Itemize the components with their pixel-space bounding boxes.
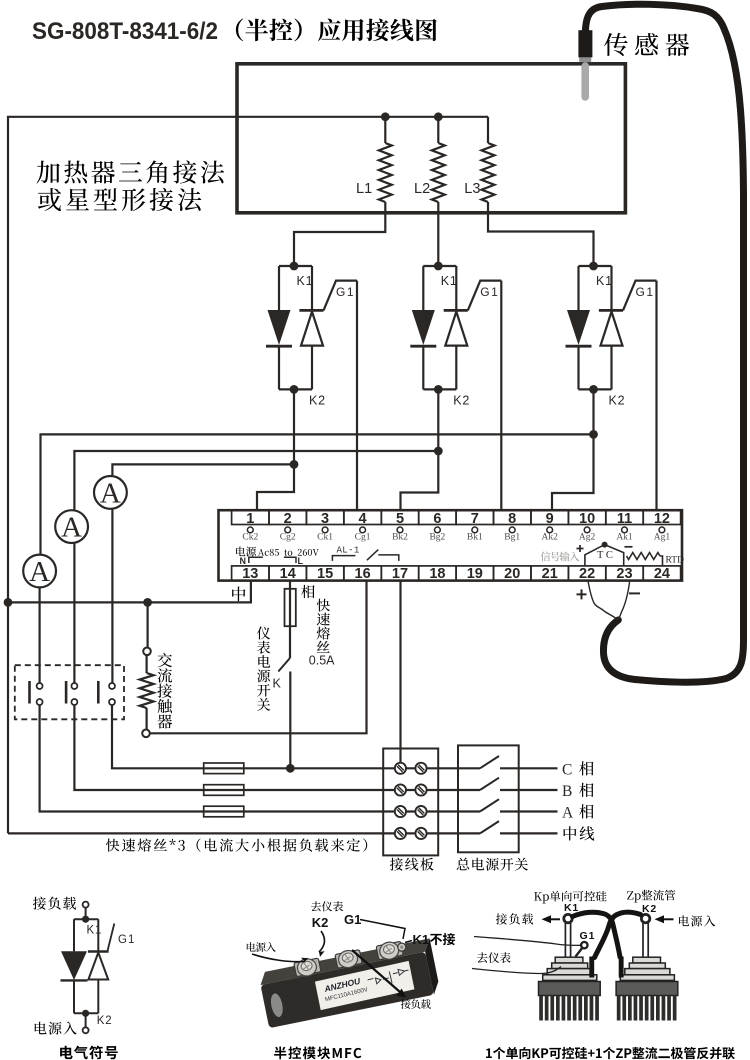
arrow middle terminal to load [352,950,400,992]
leader G1 to gate screw [360,920,405,940]
wire: sensor + lead to terminal 22 [588,581,618,620]
label: B phase [562,783,594,800]
svg-text:2: 2 [284,511,292,527]
arrow to load [542,915,561,923]
wire: bus line A (module3 K2 to ammeter A1) [41,434,594,554]
svg-text:13: 13 [242,566,258,582]
node: L1 top junction [381,112,390,121]
caption: fast fuses x3 [106,838,367,851]
figure: half-controlled module MFC (photo) [257,934,441,1028]
terminal signal labels Ck2..Ag1 [242,533,670,543]
label: neutral line [564,826,595,840]
svg-text:Bk2: Bk2 [392,533,408,543]
ammeter A1 [23,555,56,683]
label: sensor [604,33,689,56]
label: phase (xiang) [301,585,314,598]
label: power in [247,942,276,952]
white label [315,961,415,1010]
svg-text:G1: G1 [580,930,596,942]
label: supply Ac85 to 260V [236,546,319,556]
arrow power-in to left terminal [252,954,305,962]
svg-text:18: 18 [429,566,445,582]
wire: coil to terminal 16 [150,581,367,734]
svg-text:6: 6 [433,511,441,527]
leader K1bujie [405,941,412,943]
wire: gate G1 of module3 to terminal 12 [655,281,657,511]
cable: K1 to ZP anode tab [573,912,621,957]
label: power in [35,1022,77,1035]
terminal board screws [395,763,427,839]
label K1 not connected [413,932,456,947]
svg-text:16: 16 [355,566,371,582]
label: to instrument [311,901,343,911]
heater load box [237,64,625,213]
bottom bar [74,1012,98,1014]
svg-text:L3: L3 [464,181,480,197]
main power switch box [458,745,519,852]
wire: module2 K2 to terminal 5 [401,389,439,510]
ammeter A2 [55,510,88,683]
wire: L1 bottom to module [294,202,385,266]
plus sign [577,545,584,552]
gate lead [108,924,115,952]
svg-text:4: 4 [359,511,367,527]
wire: below A3 to contactor [111,509,113,683]
leader: instrument to cathode [472,967,561,974]
wire: sensor - lead to terminal 23 [619,581,630,620]
svg-text:0.5A: 0.5A [309,654,335,668]
switch pole 4 [480,821,558,833]
svg-text:17: 17 [392,566,408,582]
arrow K2 to terminal 1 [319,931,325,952]
node: junction on module2 K2 wire [434,447,443,456]
svg-text:7: 7 [471,511,479,527]
wire: L3 bottom to module [488,202,594,266]
coil (zigzag) [140,673,154,708]
svg-text:14: 14 [280,566,296,582]
svg-text:A: A [61,512,82,544]
thyristor module 3 (phase A) [566,262,657,408]
label: main power switch [457,858,528,871]
label: A phase [562,804,594,821]
wire [85,908,87,920]
svg-text:11: 11 [617,511,632,527]
wire: gate G1 of module2 to terminal 8 [500,281,502,511]
label: to load [33,897,76,910]
wire: L2 bottom to module [437,202,439,266]
wire: C-phase row from contactor contact 3 [112,705,480,768]
label: to instrument [477,952,511,963]
svg-text:Ak2: Ak2 [542,533,559,543]
label: to load [496,913,533,924]
terminal numbers 1-24 [242,511,670,582]
leader: instrument to gate [474,937,581,946]
contactor contact 2 [66,681,77,705]
svg-text:22: 22 [579,566,595,582]
terminal circle top [83,902,89,908]
svg-text:K1: K1 [87,925,103,937]
svg-text:K1: K1 [413,932,430,947]
wire: module1 K2 to terminal 1 [257,389,294,510]
svg-text:L: L [298,556,304,566]
label: power in [679,915,715,926]
svg-text:K1: K1 [564,902,579,914]
label: Zp rectifier diode [627,890,675,903]
terminal circle bottom [83,1027,89,1033]
svg-text:23: 23 [616,566,632,582]
svg-text:A: A [562,804,574,821]
arrow power in [655,915,674,923]
wire: bus line C (module1 K2 to ammeter A3) [112,464,294,476]
svg-text:L2: L2 [414,181,430,197]
heater element L2 [432,117,445,266]
terminal screws row 1 [247,527,664,533]
svg-text:Ak1: Ak1 [616,533,633,543]
label: AC contactor (vertical) [157,653,172,729]
thyristor module 2 (phase B) [410,262,501,408]
node: L2 top junction [434,112,443,121]
sensor probe [578,30,592,101]
caption: electrical symbol [60,1046,118,1060]
contactor contact 1 [30,681,43,705]
heater element L3 [482,117,594,266]
label: neutral (zhong) [232,587,245,602]
wire [85,1013,87,1027]
switch pole 3 [480,799,558,811]
caption: half-controlled module MFC [274,1046,361,1059]
switch K blade [278,658,290,672]
fuse 0.5A (vertical) [285,589,296,626]
svg-text:Ag1: Ag1 [654,533,671,543]
tab at KP side [589,957,594,978]
fuse row 1 [204,763,244,774]
svg-text:K2: K2 [312,915,329,930]
svg-text:9: 9 [546,511,554,527]
symbol branch right: SCR [88,919,114,1013]
svg-text:RTD: RTD [666,556,685,566]
svg-text:20: 20 [504,566,520,582]
minus sign [625,546,633,548]
wire: A-phase row from contactor contact 1 [40,705,480,812]
svg-text:G1: G1 [344,912,361,927]
svg-text:G1: G1 [118,934,135,946]
svg-text:A: A [100,477,121,509]
svg-text:12: 12 [654,511,670,527]
stud device KP [539,914,601,1020]
RTD symbol [627,553,685,566]
wire: gate G1 of module1 to terminal 4 [356,281,358,511]
node: coil tap on neutral [143,598,152,607]
svg-text:Ck2: Ck2 [242,533,258,543]
wire: below A1 to contactor [38,587,40,683]
fuse row 3 [204,806,244,817]
mounting hole left end [269,992,285,1018]
svg-text:Bg1: Bg1 [504,533,520,543]
minus sign below strip [629,592,640,594]
node: junction on module1 K2 wire [290,460,299,469]
AC contactor dashed box [15,665,124,719]
wire: terminal 14 down [289,581,291,658]
svg-text:L1: L1 [356,181,372,197]
thyristor module 1 (phase C): diode + SCR antiparallel [266,262,357,408]
switch pole 2 [480,778,558,790]
svg-text:N: N [240,556,247,566]
module body [260,952,433,1029]
label: Kp unidirectional SCR [534,891,607,904]
heater element L1 [294,117,392,266]
title: SG-808T-8341-6/2 (half-control) application wiring diagram [32,18,437,45]
svg-text:21: 21 [542,566,558,582]
svg-text:8: 8 [508,511,516,527]
svg-text:K2: K2 [97,1015,113,1027]
svg-text:5: 5 [396,511,404,527]
svg-text:Ck1: Ck1 [317,533,333,543]
controller terminal strip [219,510,683,580]
plus sign below strip [577,589,587,599]
svg-text:Ag2: Ag2 [579,533,596,543]
label: C phase [562,761,594,778]
terminal cells 1-24 [232,510,681,580]
terminal board box [383,749,438,856]
wire: module3 K2 to terminal 9 [552,389,594,510]
svg-text:1: 1 [246,511,254,527]
svg-text:15: 15 [317,566,333,582]
tab at ZP side [619,957,624,978]
node: junction on module3 K2 wire [589,430,598,439]
svg-text:Bk1: Bk1 [467,533,483,543]
top bar [74,918,98,920]
svg-text:K: K [273,677,282,691]
label: to load [401,999,431,1009]
svg-text:19: 19 [467,566,483,582]
svg-text:SG-808T-8341-6/2: SG-808T-8341-6/2 [32,18,218,45]
switch pole 1 [480,756,558,768]
label: fast fuse 0.5A (vertical) [309,599,335,668]
label: instrument power switch (vertical) [257,627,270,711]
wire: below A2 to contactor [73,543,75,683]
screw terminals [293,957,321,979]
node K2 [82,1010,89,1017]
gate G1 terminal [576,942,588,957]
ammeter A3 [94,476,127,683]
svg-text:A: A [29,556,50,588]
caption: 1 KP SCR + 1 ZP diode antiparallel [486,1047,735,1059]
AL-1 alarm contact [332,545,398,561]
contactor coil branch [140,581,367,738]
svg-text:Bg2: Bg2 [429,533,445,543]
svg-text:Cg1: Cg1 [355,533,371,543]
contactor contact 3 [98,681,115,705]
TC thermocouple symbol [577,542,633,566]
svg-text:10: 10 [579,511,595,527]
N marker [240,556,263,566]
sensor cable [585,4,743,682]
node K1 [82,916,89,923]
stud device ZP [616,914,678,1020]
svg-text:AL-1: AL-1 [337,545,360,555]
label: terminal board [390,858,434,871]
wire: switch K to fuse row1 [289,672,291,769]
fuse row 2 [204,785,244,796]
wire: bus line B (module2 K2 to ammeter A2) [74,451,438,510]
wire: terminal 13 neutral to left bus [8,581,251,603]
wire: terminal 17 to terminal board [399,581,401,769]
label: signal input (gray) [541,552,580,562]
node: left edge neutral junction [4,598,13,607]
wire: neutral row from left bus [8,832,480,834]
svg-text:Cg2: Cg2 [280,533,296,543]
symbol branch left: diode [61,919,88,1013]
svg-text:B: B [562,783,572,800]
node: K branch joins C-phase row [286,764,295,773]
svg-text:24: 24 [654,566,670,582]
wire: top feed line and left vertical bus [8,117,488,834]
svg-text:3: 3 [321,511,329,527]
svg-text:TC: TC [597,550,615,561]
L marker [284,556,304,566]
svg-text:C: C [562,761,572,778]
wire: B-phase row from contactor contact 2 [74,705,480,790]
label: heater delta or star connection [37,160,225,211]
small gate terminal [397,942,406,951]
cable: K2 to KP anode tab [595,912,641,957]
